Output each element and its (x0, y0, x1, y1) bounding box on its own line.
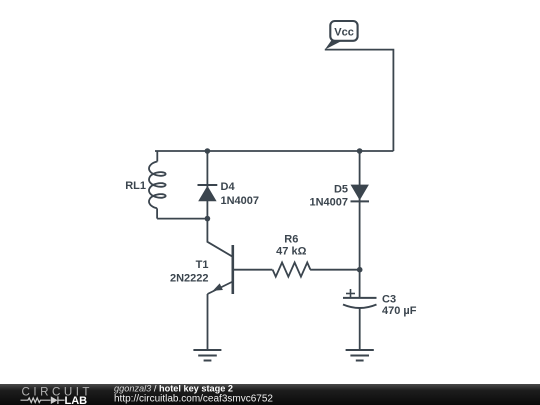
svg-text:Vcc: Vcc (334, 27, 354, 39)
svg-text:D5: D5 (334, 184, 348, 196)
diode D4 wire (206, 151, 208, 219)
diode D5 (351, 185, 369, 201)
wire base lead (233, 269, 273, 271)
svg-text:470 µF: 470 µF (382, 305, 417, 317)
svg-text:2N2222: 2N2222 (170, 273, 209, 285)
capacitor C3 bottom plate (343, 305, 377, 309)
logo schematic squiggle wire (21, 396, 65, 404)
Vcc flag box (330, 21, 357, 41)
inductor RL1 coil (156, 151, 158, 162)
node: junction dot top D5 (357, 148, 363, 154)
transistor T1 base bar (232, 245, 235, 294)
svg-text:D4: D4 (221, 181, 236, 193)
wire bottom rail (157, 218, 207, 220)
diode D4 (198, 184, 218, 186)
svg-text:47 kΩ: 47 kΩ (276, 246, 306, 258)
Vcc flag pointer (325, 40, 343, 49)
ground right (346, 350, 374, 361)
svg-text:T1: T1 (196, 259, 209, 271)
resistor R6 (273, 263, 311, 277)
wire cap to ground (359, 308, 361, 350)
capacitor C3 plus sign (346, 293, 355, 295)
wire collector lead (207, 219, 232, 257)
svg-text:RL1: RL1 (125, 180, 146, 192)
wire resistor to node (310, 269, 360, 271)
svg-text:http://circuitlab.com/ceaf3smv: http://circuitlab.com/ceaf3smvc6752 (114, 393, 273, 404)
svg-text:C3: C3 (382, 294, 396, 306)
diode D5 wire (359, 151, 361, 298)
logo diode triangle (51, 396, 58, 404)
footer bar (0, 384, 540, 405)
svg-text:1N4007: 1N4007 (309, 196, 348, 208)
node: junction dot bottom D4 (205, 216, 211, 222)
svg-text:LAB: LAB (65, 395, 88, 405)
wire emitter to ground (207, 294, 209, 350)
node: junction dot top D4 (205, 148, 211, 154)
wire Vcc to top-right corner (325, 50, 394, 151)
svg-text:ggonzal3 / hotel key stage 2: ggonzal3 / hotel key stage 2 (114, 384, 233, 393)
capacitor C3 top plate (343, 297, 377, 299)
ground left (193, 350, 221, 361)
node: junction dot R6/C3 (357, 267, 363, 273)
transistor T1 emitter arrow (213, 283, 223, 290)
svg-text:R6: R6 (284, 233, 298, 245)
svg-text:1N4007: 1N4007 (221, 195, 260, 207)
wire top rail (155, 150, 393, 152)
transistor T1 emitter (208, 282, 233, 295)
